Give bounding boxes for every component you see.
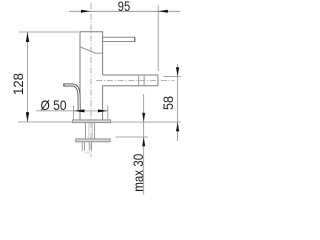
- hose stub right: [89, 142, 91, 151]
- dim 58 line: [177, 64, 179, 141]
- dim 50 arrow left: [74, 109, 85, 112]
- slab bottom line: [116, 136, 149, 138]
- handle lever: [103, 37, 135, 41]
- dim 95 line: [69, 10, 180, 12]
- vertical centerline: [90, 3, 92, 157]
- dim 95 arrow left: [81, 10, 91, 13]
- dim 50 arrow right: [98, 109, 108, 112]
- dim 58 arrow up: [176, 122, 179, 131]
- dim 95 ext line: [157, 6, 159, 72]
- hose stub left: [82, 142, 84, 151]
- deck line left: [18, 121, 73, 123]
- dim 58 text: [160, 96, 176, 110]
- dim max30 line: [143, 94, 145, 195]
- pop-up rod hook: [63, 85, 79, 111]
- body seam diagonal: [80, 47, 103, 53]
- dim 128 text: [10, 73, 26, 95]
- faucet body: [80, 32, 103, 120]
- svg-text:58: 58: [160, 96, 176, 110]
- handle end tick: [134, 37, 136, 41]
- spout centerline: [96, 80, 175, 82]
- dim max30 arrow up: [142, 137, 145, 146]
- dim 50 ext left: [73, 106, 75, 120]
- dim max30 text: [130, 154, 146, 192]
- svg-text:128: 128: [10, 73, 26, 95]
- hose bottom dash: [85, 152, 91, 154]
- dim 128 arrow up: [26, 32, 29, 42]
- base plate: [73, 120, 111, 123]
- dim max30 arrow down: [142, 113, 145, 122]
- dim 128 line: [27, 32, 29, 122]
- dim 58 ext dash: [164, 75, 182, 77]
- dim 50 ext right: [107, 106, 109, 120]
- dim 128 ext line: [19, 31, 79, 33]
- spout rings: [139, 75, 144, 86]
- spout: [103, 75, 158, 86]
- mounting nut: [76, 139, 110, 142]
- svg-text:95: 95: [118, 0, 131, 14]
- inner hoses: [89, 123, 92, 139]
- svg-text:max 30: max 30: [130, 154, 146, 192]
- svg-text:Ø 50: Ø 50: [41, 97, 67, 113]
- threaded shank: [85, 123, 94, 139]
- deck line right: [111, 121, 181, 123]
- dim 58 arrow down: [176, 67, 179, 76]
- dim diameter 50 line: [36, 110, 108, 112]
- dim 95 arrow right: [158, 10, 168, 13]
- dim 128 arrow down: [26, 112, 29, 122]
